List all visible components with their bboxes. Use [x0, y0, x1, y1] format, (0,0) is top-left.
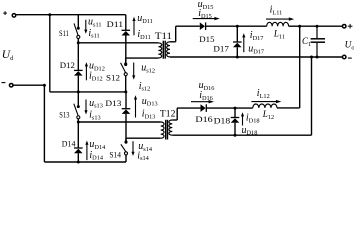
- wire: D12 anode lead: [77, 76, 79, 92]
- node: D17 bottom dot: [236, 56, 239, 59]
- label i_D12: [89, 71, 103, 83]
- capacitor C1: [311, 26, 325, 57]
- diode D17: [233, 42, 242, 47]
- label i_D13: [142, 108, 156, 120]
- node: top-rail junction to bus: [48, 13, 51, 16]
- wire: converter2 return riser: [311, 57, 313, 135]
- input - terminal: [2, 83, 13, 87]
- svg-text:S11: S11: [59, 28, 69, 38]
- label i_L12: [257, 88, 270, 100]
- wire: D12 cathode lead: [77, 43, 79, 71]
- wire: right bus vertical x=44.4: [43, 85, 45, 162]
- wire: L11 to output +: [289, 25, 343, 27]
- node: return riser dot: [310, 56, 313, 59]
- T11 secondary winding: [167, 42, 170, 57]
- node: D14 bottom-rail dot: [77, 161, 80, 164]
- svg-text:D18: D18: [214, 116, 231, 126]
- node: D18 top dot: [234, 107, 237, 110]
- label u_s13: [89, 98, 103, 110]
- transformer T11 label: [155, 31, 172, 41]
- T12 secondary winding: [169, 120, 172, 135]
- wire: T11 secondary bottom lead joins return: [169, 56, 171, 58]
- label D15: [199, 34, 215, 44]
- diode D11: [122, 30, 131, 35]
- wire: S13 bottom lead: [77, 119, 79, 122]
- node: D17 top dot: [236, 25, 239, 28]
- wire: node B horizontal (T12 primary top): [78, 121, 160, 123]
- wire: T12 secondary top lead: [172, 108, 177, 120]
- switch S12: [121, 63, 128, 76]
- label D16: [195, 114, 213, 124]
- node: S12/D13 mid-rail dot: [124, 90, 127, 93]
- svg-text:D14: D14: [62, 138, 76, 148]
- wire: T11 secondary top lead: [170, 26, 176, 42]
- label u_s11: [88, 17, 102, 29]
- arrow u_D14: [85, 141, 88, 161]
- node: D12/S13 mid-rail dot: [77, 90, 80, 93]
- diode D15: [200, 22, 206, 30]
- wire: D11 anode lead down: [125, 36, 127, 64]
- label D11: [107, 19, 124, 29]
- switch S11: [74, 23, 80, 38]
- wire: secondary2 top to D16: [177, 107, 201, 109]
- label u_s14: [138, 141, 153, 153]
- wire: D13 anode lead down: [125, 114, 127, 142]
- wire: D13 top lead: [125, 92, 127, 109]
- svg-text:S13: S13: [59, 109, 70, 119]
- diode D16: [201, 104, 207, 112]
- wire: D11 top lead: [125, 15, 127, 31]
- svg-text:S12: S12: [106, 72, 120, 82]
- wire: D17 cathode lead: [236, 26, 238, 42]
- wire: - terminal lead: [13, 84, 44, 86]
- label C1: [302, 36, 311, 48]
- top rail wire: [16, 14, 126, 16]
- label i_s13: [89, 110, 101, 122]
- node: - bus junction dot: [43, 84, 46, 87]
- label D18: [214, 116, 231, 126]
- wire: left bus vertical x=49.8: [49, 15, 51, 92]
- output + terminal: [342, 24, 352, 29]
- label D14: [62, 138, 76, 148]
- wire: L12 to riser: [277, 107, 300, 109]
- label i_D15: [198, 8, 212, 20]
- label D13: [105, 98, 122, 108]
- diode D18: [231, 118, 240, 123]
- wire: D15 to L11: [206, 25, 267, 27]
- label D12: [60, 60, 75, 70]
- label u_D16: [199, 80, 215, 92]
- arrow u_s14: [131, 141, 134, 156]
- wire: D17 anode lead: [236, 47, 238, 57]
- label i_D18: [246, 113, 260, 125]
- label u_D13: [142, 96, 158, 108]
- label u_D14: [89, 139, 106, 151]
- svg-text:D13: D13: [105, 98, 122, 108]
- label L12: [262, 109, 274, 121]
- node: C1 bottom dot: [316, 56, 319, 59]
- node: T12 primary-bottom / S14 junction dot: [125, 140, 128, 143]
- node A junction dot: [77, 41, 80, 44]
- arrow u_D12: [85, 62, 88, 80]
- arrow i_D15: [193, 17, 220, 20]
- wire: D18 anode lead: [234, 123, 236, 136]
- switch S14: [121, 141, 128, 155]
- svg-text:T11: T11: [155, 31, 172, 41]
- wire: secondary top to D15: [176, 25, 200, 27]
- inductor L11: [267, 22, 289, 26]
- label Uo: [345, 41, 354, 52]
- wire: node A horizontal (primary top): [78, 42, 158, 44]
- label u_s12: [141, 62, 155, 74]
- label i_s11: [88, 28, 99, 40]
- transformer T12 label: [160, 109, 176, 119]
- label i_D14: [89, 150, 103, 162]
- svg-text:D11: D11: [107, 19, 124, 29]
- label L11: [273, 29, 285, 41]
- output return wire: [170, 56, 343, 58]
- input + terminal: [3, 11, 16, 17]
- node: primary-bottom / S12 junction dot: [124, 62, 127, 65]
- label i_D16: [199, 90, 213, 102]
- label D17: [213, 44, 229, 54]
- label S12: [106, 72, 120, 82]
- wire: D14 cathode lead: [77, 122, 79, 148]
- arrow u_s12: [132, 63, 135, 80]
- arrow i_D18: [241, 112, 244, 125]
- wire: S13 top lead: [77, 92, 79, 106]
- label i_s14: [137, 150, 149, 162]
- svg-text:D12: D12: [60, 60, 75, 70]
- wire: D14 anode lead: [77, 153, 79, 162]
- label i_L11: [270, 5, 283, 17]
- label S13: [59, 109, 70, 119]
- label u_D12: [89, 61, 105, 73]
- diode D14: [74, 148, 83, 153]
- node B junction dot: [77, 121, 80, 124]
- svg-text:T12: T12: [160, 109, 176, 119]
- label i_D11: [137, 29, 150, 41]
- label i_s12: [139, 81, 151, 93]
- label u_D11: [137, 13, 153, 25]
- diode D12: [74, 70, 83, 75]
- label u_D17: [248, 44, 264, 56]
- arrow u_s13: [84, 100, 87, 115]
- arrow i_L11: [266, 17, 294, 20]
- wire: D16 to L12: [207, 107, 253, 109]
- arrow u_s11: [84, 20, 87, 34]
- bottom rail wire: [44, 161, 126, 163]
- T12 core: [166, 120, 168, 140]
- label S11: [59, 28, 69, 38]
- node: D18 bottom dot: [234, 134, 237, 137]
- wire: S14 bottom lead: [125, 155, 127, 162]
- node: riser1 top dot: [298, 25, 301, 28]
- arrow u_D13: [134, 95, 137, 117]
- inductor L12: [253, 104, 277, 108]
- T12 primary winding: [161, 122, 164, 138]
- arrow i/u_D17: [242, 33, 245, 52]
- T11 core: [163, 41, 165, 59]
- T11 primary winding: [158, 43, 161, 58]
- wire: D18 cathode lead: [234, 108, 236, 117]
- arrow i_L12: [251, 100, 281, 103]
- label i_D17: [250, 30, 264, 42]
- wire: T12 primary bottom lead: [126, 138, 161, 142]
- arrow i_D16: [191, 100, 214, 103]
- label S14: [109, 149, 121, 159]
- label u_D18: [242, 125, 258, 137]
- svg-text:D17: D17: [213, 44, 229, 54]
- wire: S12 bottom lead: [125, 76, 127, 92]
- node: C1 top dot: [316, 25, 319, 28]
- label Ud: [2, 49, 14, 62]
- wire: S11 top lead: [77, 15, 79, 28]
- wire: converter2 output riser: [299, 26, 301, 108]
- output - terminal: [342, 55, 351, 59]
- svg-text:S14: S14: [109, 149, 121, 159]
- mid rail wire: [50, 91, 126, 93]
- label u_D15: [198, 0, 214, 11]
- arrow u_D11: [132, 17, 135, 36]
- wire: S11 bottom lead: [77, 39, 79, 43]
- wire: primary bottom lead: [126, 58, 159, 64]
- svg-text:D16: D16: [195, 114, 213, 124]
- switch S13: [74, 104, 80, 119]
- diode D13: [122, 109, 131, 114]
- wire: T12 secondary bottom lead: [172, 134, 311, 136]
